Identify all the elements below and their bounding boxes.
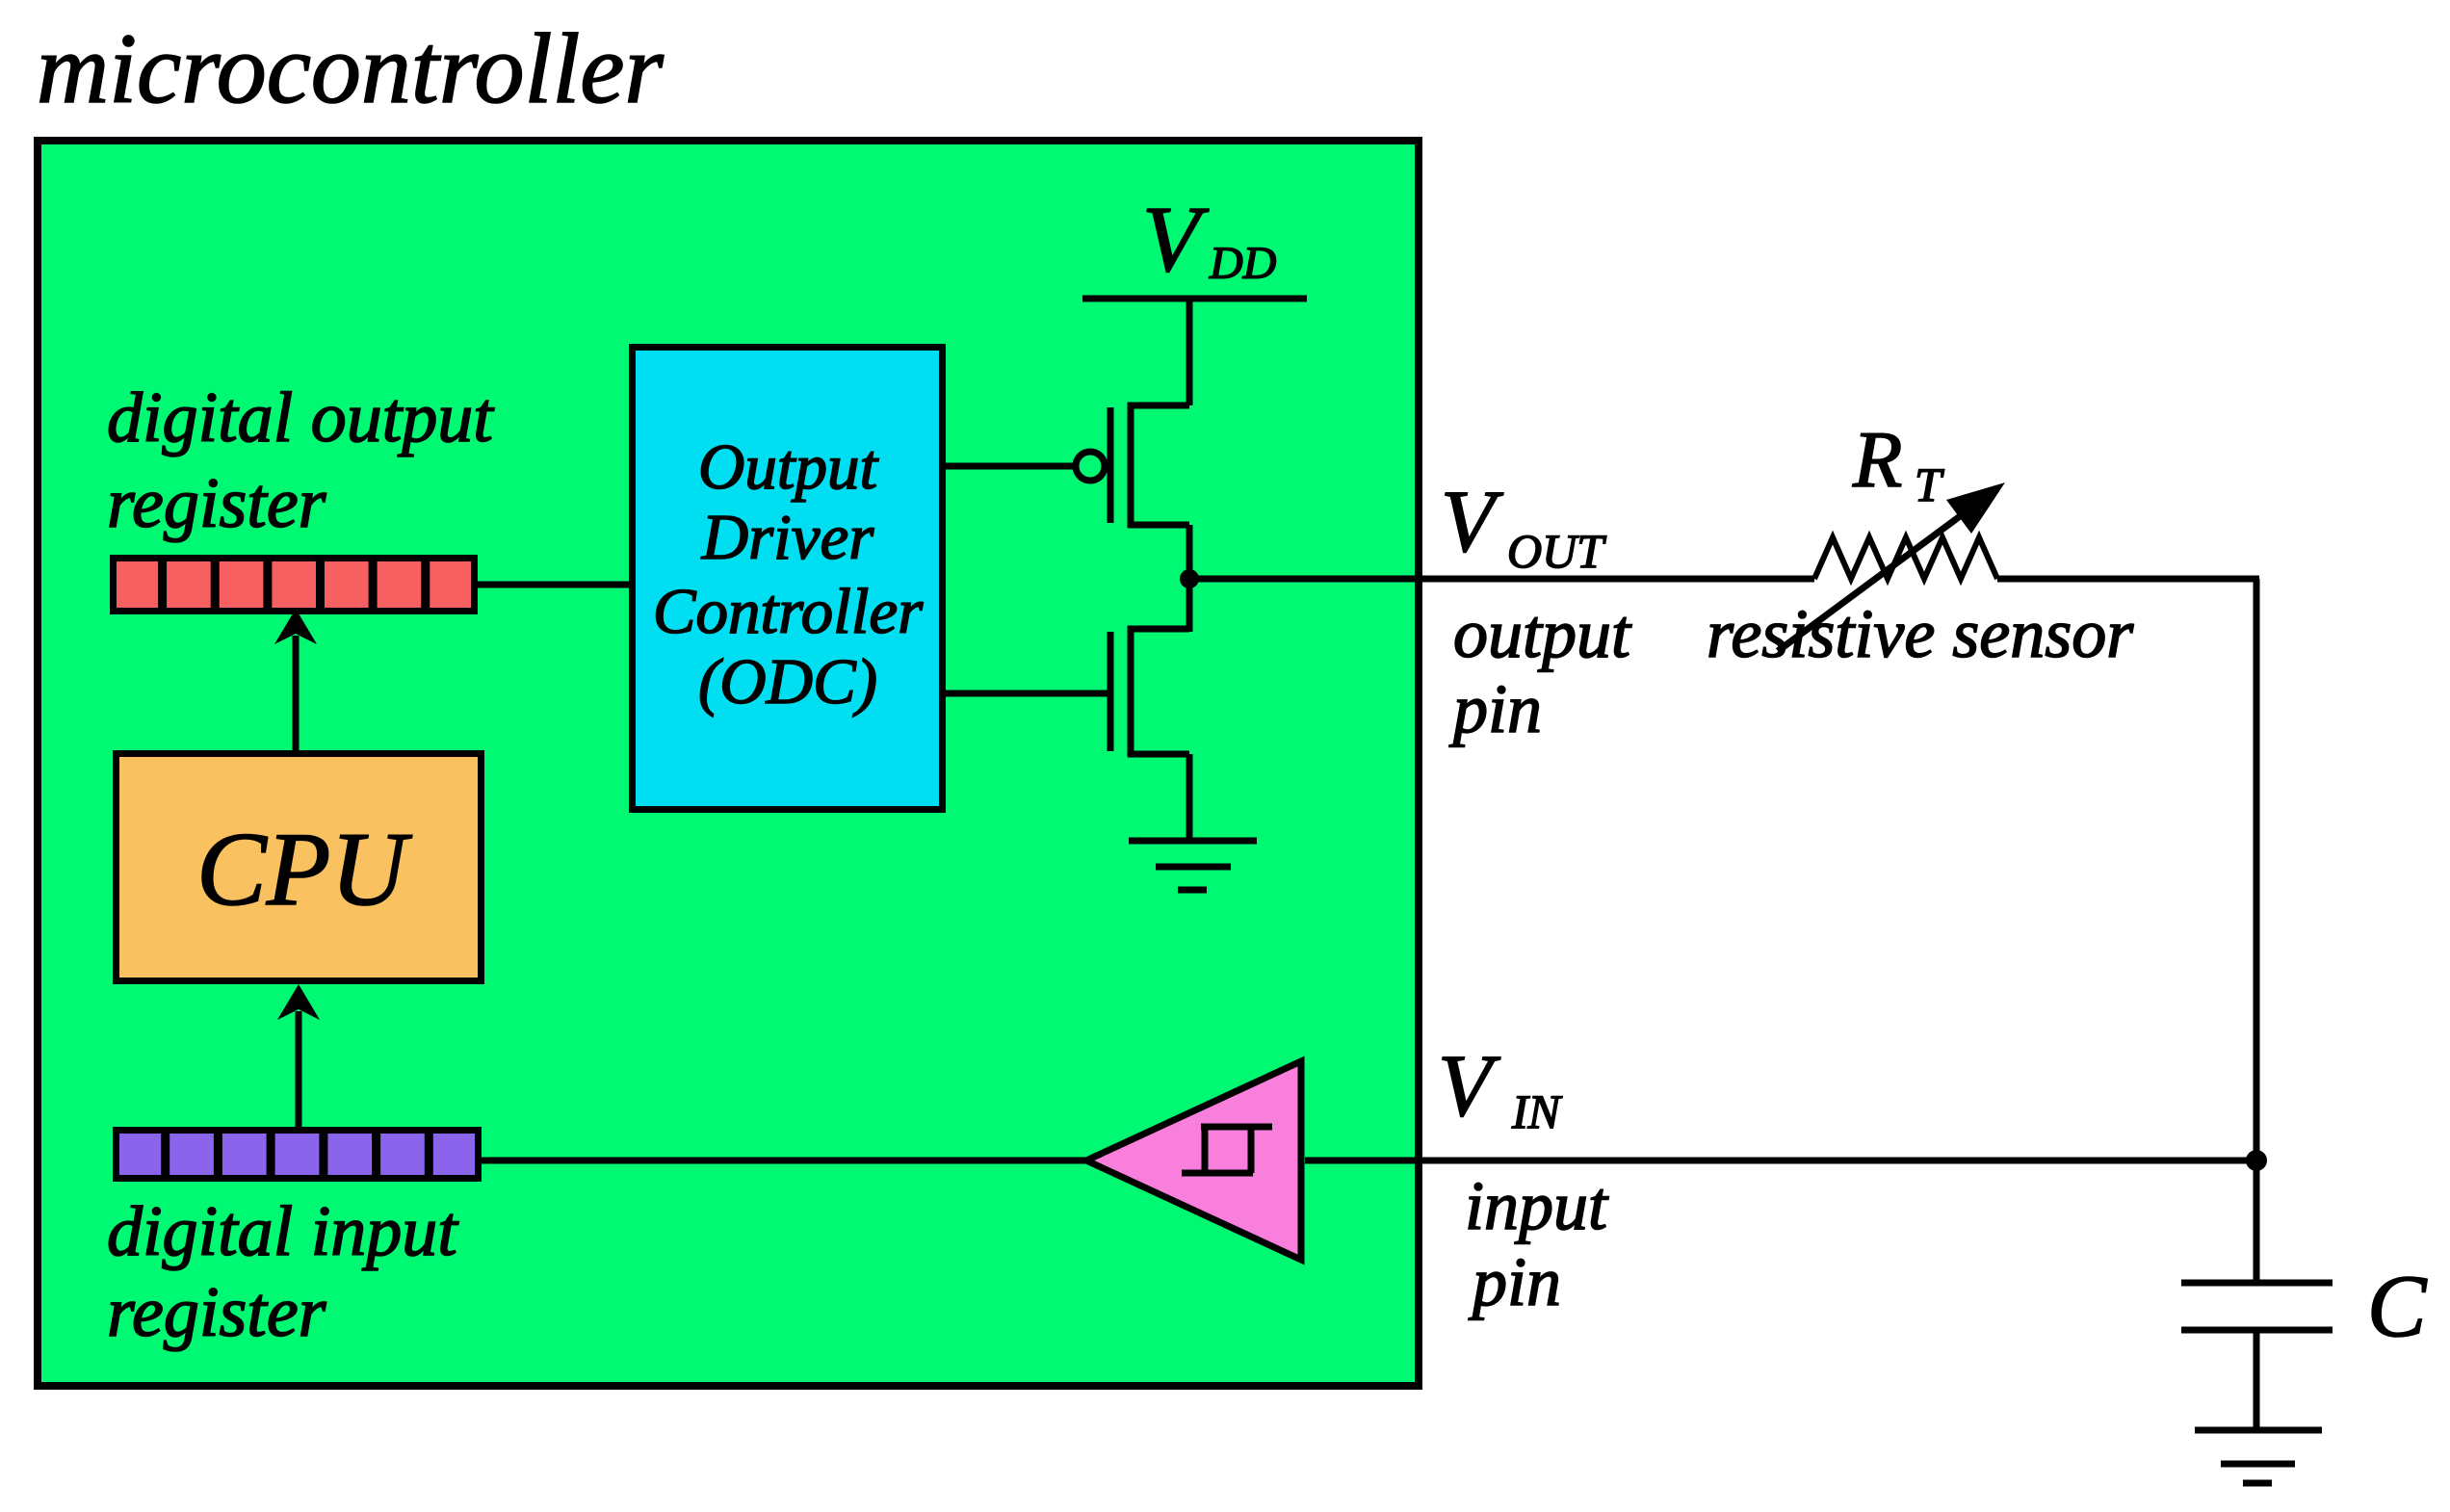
svg-text:pin: pin xyxy=(1468,1243,1561,1320)
svg-text:register: register xyxy=(107,1273,327,1352)
svg-text:V: V xyxy=(1441,472,1504,570)
svg-text:R: R xyxy=(1852,415,1902,505)
svg-text:Driver: Driver xyxy=(701,502,875,573)
svg-text:IN: IN xyxy=(1511,1084,1563,1138)
svg-text:V: V xyxy=(1142,188,1210,292)
svg-text:digital input: digital input xyxy=(107,1192,459,1271)
svg-text:output: output xyxy=(1453,595,1632,672)
svg-text:register: register xyxy=(107,464,327,543)
svg-text:OUT: OUT xyxy=(1507,524,1606,578)
svg-text:DD: DD xyxy=(1209,238,1276,289)
svg-text:C: C xyxy=(2367,1257,2428,1355)
svg-text:input: input xyxy=(1465,1167,1609,1244)
svg-text:(ODC): (ODC) xyxy=(698,646,877,717)
svg-text:microcontroller: microcontroller xyxy=(37,13,664,124)
svg-text:pin: pin xyxy=(1448,670,1542,747)
svg-text:Output: Output xyxy=(698,431,879,503)
svg-text:T: T xyxy=(1915,457,1944,511)
svg-text:CPU: CPU xyxy=(196,811,412,927)
svg-text:Controller: Controller xyxy=(653,576,924,647)
svg-text:digital output: digital output xyxy=(107,378,495,457)
svg-text:V: V xyxy=(1438,1036,1501,1134)
svg-text:resistive sensor: resistive sensor xyxy=(1707,595,2134,672)
